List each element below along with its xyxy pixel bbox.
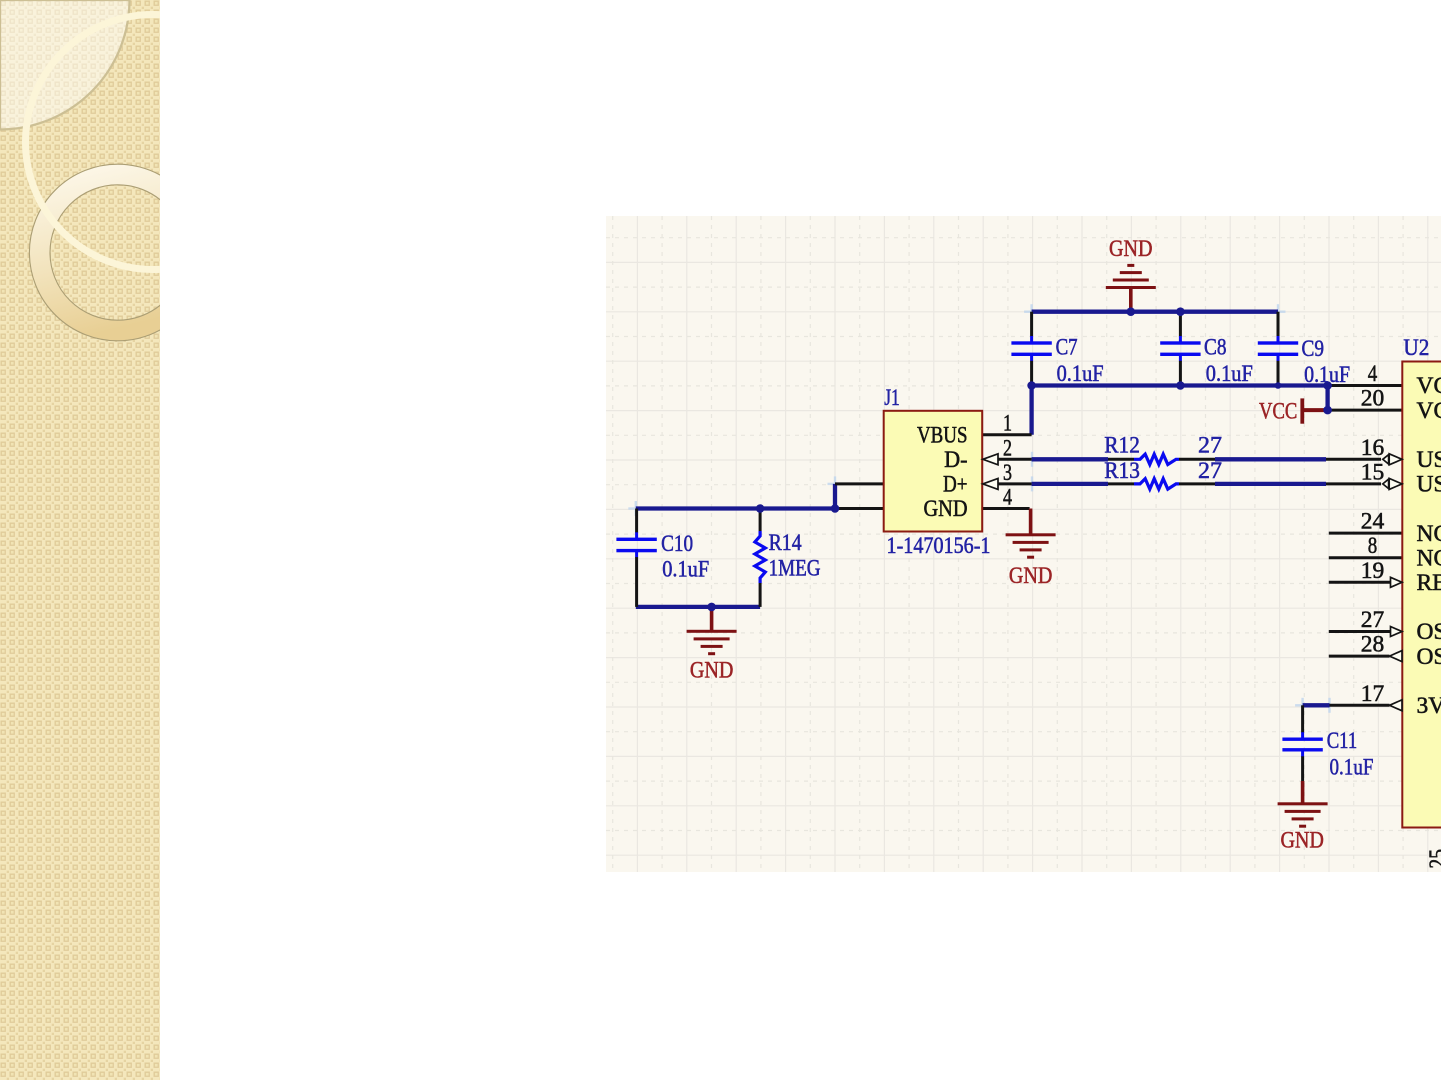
svg-text:J1: J1	[884, 385, 900, 411]
svg-text:C10: C10	[661, 531, 693, 557]
svg-text:4: 4	[1003, 485, 1012, 511]
svg-text:C9: C9	[1302, 336, 1325, 362]
svg-text:15: 15	[1361, 459, 1385, 485]
svg-text:U2: U2	[1403, 335, 1429, 361]
svg-text:28: 28	[1361, 632, 1385, 658]
svg-text:27: 27	[1198, 458, 1222, 484]
svg-text:25: 25	[1425, 849, 1441, 869]
svg-text:D-: D-	[944, 447, 967, 473]
svg-text:GND: GND	[1280, 828, 1324, 854]
svg-text:C8: C8	[1204, 335, 1227, 361]
svg-text:20: 20	[1361, 386, 1385, 412]
svg-text:OS: OS	[1417, 619, 1441, 645]
svg-text:4: 4	[1368, 361, 1378, 387]
svg-text:2: 2	[1003, 435, 1012, 461]
svg-text:R13: R13	[1104, 458, 1140, 484]
svg-text:RE: RE	[1417, 570, 1441, 596]
svg-text:GND: GND	[1109, 236, 1153, 262]
svg-text:3V: 3V	[1417, 693, 1441, 719]
svg-text:0.1uF: 0.1uF	[1330, 755, 1374, 781]
svg-text:1MEG: 1MEG	[769, 556, 821, 582]
svg-text:VBUS: VBUS	[917, 422, 968, 448]
svg-text:3: 3	[1003, 460, 1012, 486]
svg-text:1: 1	[1003, 411, 1012, 437]
svg-text:0.1uF: 0.1uF	[1304, 362, 1350, 388]
svg-text:GND: GND	[690, 658, 734, 684]
svg-text:R12: R12	[1104, 433, 1140, 459]
svg-text:0.1uF: 0.1uF	[662, 556, 709, 582]
svg-text:27: 27	[1198, 433, 1222, 459]
svg-text:0.1uF: 0.1uF	[1206, 361, 1253, 387]
svg-text:GND: GND	[1009, 563, 1053, 589]
svg-text:C7: C7	[1056, 335, 1078, 361]
svg-text:NC: NC	[1417, 545, 1441, 571]
svg-text:0.1uF: 0.1uF	[1057, 361, 1104, 387]
svg-text:17: 17	[1361, 681, 1385, 707]
svg-text:16: 16	[1361, 435, 1385, 461]
svg-text:OS: OS	[1417, 644, 1441, 670]
svg-text:19: 19	[1361, 558, 1385, 584]
svg-text:VCC: VCC	[1259, 399, 1297, 425]
svg-text:GND: GND	[924, 496, 968, 522]
svg-text:VC: VC	[1417, 373, 1441, 399]
svg-text:VC: VC	[1417, 398, 1441, 424]
svg-text:NC: NC	[1417, 521, 1441, 547]
svg-text:1-1470156-1: 1-1470156-1	[887, 533, 991, 559]
svg-text:D+: D+	[943, 472, 968, 498]
svg-text:C11: C11	[1327, 728, 1358, 754]
svg-text:8: 8	[1368, 533, 1378, 559]
svg-text:27: 27	[1361, 607, 1385, 633]
svg-text:US: US	[1417, 447, 1441, 473]
svg-text:R14: R14	[769, 530, 802, 556]
svg-text:US: US	[1417, 472, 1441, 498]
svg-text:24: 24	[1361, 509, 1385, 535]
